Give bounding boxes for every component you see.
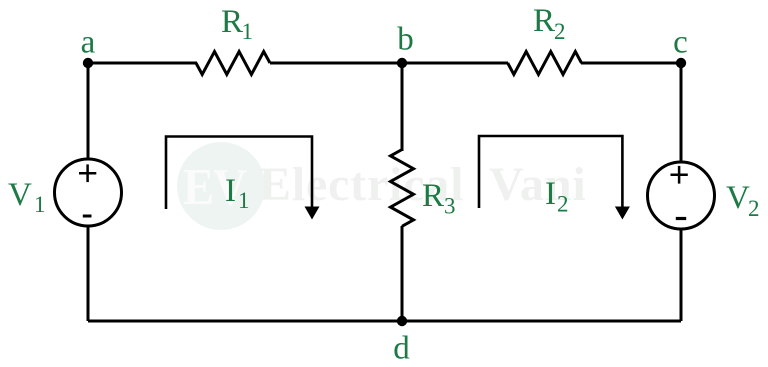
svg-text:R: R	[221, 4, 243, 40]
svg-text:1: 1	[34, 192, 46, 217]
wire V1 to bottom	[87, 226, 90, 321]
svg-text:I: I	[225, 173, 236, 209]
wire R3 to d	[401, 226, 404, 321]
svg-text:3: 3	[444, 194, 456, 219]
wire R2 to c	[581, 62, 681, 65]
node a	[83, 58, 93, 68]
mesh current I1 loop	[166, 137, 320, 220]
resistor R2	[508, 52, 582, 75]
node b	[397, 58, 407, 68]
wire a down to V1	[87, 63, 90, 160]
svg-text:V: V	[8, 177, 32, 213]
watermark	[177, 142, 587, 230]
svg-text:1: 1	[242, 19, 254, 44]
wire b to R2	[402, 62, 508, 65]
resistor R1	[196, 52, 270, 75]
svg-text:2: 2	[557, 192, 569, 217]
bottom wire	[88, 320, 681, 323]
svg-text:R: R	[422, 178, 444, 214]
node c	[676, 58, 686, 68]
resistor R3	[391, 150, 414, 227]
svg-text:R: R	[533, 3, 555, 39]
node d	[397, 316, 407, 326]
voltage source V1	[55, 159, 122, 226]
svg-text:V: V	[726, 180, 750, 216]
svg-text:Vani: Vani	[489, 158, 587, 211]
svg-text:b: b	[397, 22, 414, 58]
mesh current I2 loop	[479, 136, 630, 220]
wire V2 to bottom	[680, 229, 683, 321]
svg-text:2: 2	[554, 19, 566, 44]
svg-text:2: 2	[748, 196, 760, 221]
svg-text:c: c	[673, 25, 688, 61]
wire R1 to b	[270, 62, 402, 65]
wire c down to V2	[680, 63, 683, 163]
svg-text:1: 1	[238, 188, 250, 213]
voltage source V2	[648, 162, 715, 229]
svg-text:d: d	[393, 331, 410, 367]
wire a to R1	[88, 62, 197, 65]
svg-text:a: a	[81, 25, 96, 61]
svg-text:I: I	[545, 176, 556, 212]
wire b down to R3	[401, 63, 404, 151]
